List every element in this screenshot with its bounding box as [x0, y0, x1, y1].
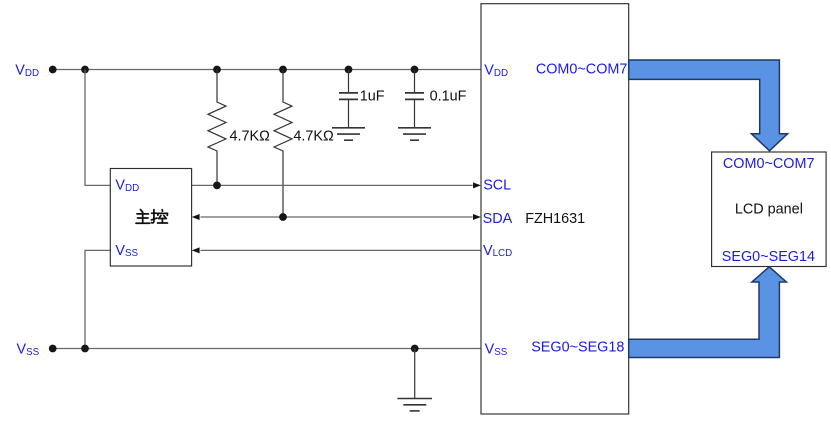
pin label U1 SCL: [483, 177, 511, 193]
wire VSS rail: [53, 348, 481, 350]
pin label MCU VDD: [115, 178, 139, 194]
wire VDD drop to MCU: [85, 70, 110, 186]
svg-text:COM0~COM7: COM0~COM7: [536, 61, 628, 77]
pin label U1 VDD: [484, 63, 508, 79]
svg-text:SCL: SCL: [483, 177, 511, 193]
bus arrow SEG0~SEG18 to LCD: [629, 267, 787, 358]
node VSS terminal: [49, 345, 57, 353]
arrowhead SDA into U1: [473, 214, 481, 220]
label VDD left: [15, 63, 39, 79]
svg-text:0.1uF: 0.1uF: [430, 89, 467, 105]
label FZH1631: [525, 211, 585, 227]
arrowhead SCL into U1: [473, 182, 481, 188]
label LCD SEG0~SEG14: [722, 249, 815, 265]
node junction C1-top: [345, 66, 353, 74]
wire ground stub: [414, 349, 416, 399]
node junction SCL-R1: [213, 182, 221, 190]
value label C1 1uF: [360, 89, 385, 105]
capacitor C1 1uF: [339, 70, 358, 128]
wire MCU VSS to rail: [85, 250, 110, 348]
MCU box 主控: [110, 169, 191, 267]
ground VSS rail: [397, 399, 432, 411]
pin label U1 COM0~COM7: [536, 61, 628, 77]
node junction SDA-R2: [279, 213, 287, 221]
arrowhead SDA into MCU: [192, 214, 200, 220]
svg-text:4.7KΩ: 4.7KΩ: [293, 128, 334, 144]
resistor R1 4.7K pull-up SCL: [208, 70, 226, 186]
value label C2 0.1uF: [430, 89, 467, 105]
wire SCL net: [192, 184, 473, 186]
node junction R1-top: [213, 66, 221, 74]
svg-text:4.7KΩ: 4.7KΩ: [230, 128, 271, 144]
wire VDD rail: [53, 69, 481, 71]
node junction VSS-ground: [411, 345, 419, 353]
pin label U1 SDA: [483, 211, 513, 227]
svg-text:FZH1631: FZH1631: [525, 211, 585, 227]
svg-text:SEG0~SEG18: SEG0~SEG18: [531, 340, 624, 356]
svg-text:COM0~COM7: COM0~COM7: [723, 156, 815, 172]
ground C1: [332, 128, 365, 140]
pin label MCU VSS: [115, 243, 138, 259]
svg-text:VDD: VDD: [15, 63, 39, 79]
capacitor C2 0.1uF: [405, 70, 424, 128]
svg-text:1uF: 1uF: [360, 89, 385, 105]
node junction VSS-left: [81, 345, 89, 353]
value label R1 4.7KΩ: [230, 128, 271, 144]
pin label U1 VLCD: [483, 243, 512, 259]
label 主控 glyphs: [136, 210, 168, 224]
pin label U1 SEG0~SEG18: [531, 340, 624, 356]
bus arrow COM0~COM7 to LCD: [629, 60, 788, 151]
label LCD COM0~COM7: [723, 156, 815, 172]
svg-text:SEG0~SEG14: SEG0~SEG14: [722, 249, 815, 265]
ground C2: [398, 128, 431, 140]
wire SDA net: [201, 216, 473, 218]
value label R2 4.7KΩ: [293, 128, 334, 144]
node junction VDD-left-drop: [81, 66, 89, 74]
LCD panel box: [712, 152, 827, 267]
svg-text:SDA: SDA: [483, 211, 513, 227]
IC U1 FZH1631 box: [481, 4, 629, 414]
node junction R2-top: [279, 66, 287, 74]
label VSS left: [17, 341, 40, 357]
svg-text:LCD panel: LCD panel: [735, 202, 803, 218]
svg-text:VSS: VSS: [17, 341, 40, 357]
pin label U1 VSS: [485, 341, 508, 357]
node junction C2-top: [411, 66, 419, 74]
resistor R2 4.7K pull-up SDA: [274, 70, 292, 218]
wire VLCD net: [201, 249, 482, 251]
node VDD terminal: [49, 66, 57, 74]
label LCD panel: [735, 202, 803, 218]
arrowhead VLCD into MCU: [192, 247, 200, 253]
